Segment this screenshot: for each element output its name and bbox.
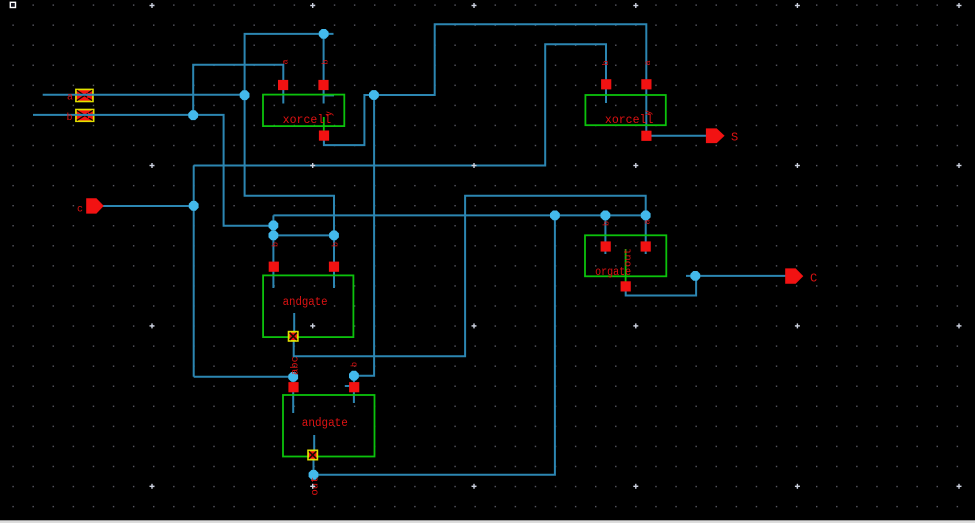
pin A0.a [269, 262, 279, 272]
pin X0.a [278, 80, 288, 90]
junction long net @ orgate pin a [641, 211, 651, 221]
wire net a drop to xorcell X0 pin b [323, 34, 325, 104]
junction net c @ pin c wire [189, 201, 199, 211]
svg-text:C: C [810, 272, 817, 286]
svg-text:a: a [643, 219, 653, 224]
wire andgate A0 output to orgate O0 pin a [294, 196, 646, 357]
junction above andgate A1 pin a [288, 372, 298, 382]
output pin S symbol [706, 128, 725, 143]
wire net c to andgate A1 pin a [194, 377, 294, 413]
svg-text:b: b [331, 242, 341, 247]
wire net b vertical through dots into andgate A0 pin a [272, 215, 274, 288]
junction net a @ wire a [240, 90, 250, 100]
pin O0.a [601, 241, 611, 251]
svg-text:b: b [601, 60, 611, 65]
junction net a top [319, 29, 329, 39]
junction net b @ wire b [188, 110, 198, 120]
svg-text:c: c [77, 205, 83, 216]
output marker andgate A0 [288, 331, 299, 342]
pin A0.b [329, 262, 339, 272]
wire xor output branch down to andgate A1 pin b [354, 95, 374, 403]
wire into pin C with left stub [686, 275, 786, 277]
green stub xorcell X0 output [323, 117, 325, 131]
major grid crosses [150, 5, 155, 6]
svg-text:andgate: andgate [302, 417, 348, 430]
svg-text:a: a [67, 93, 73, 104]
pin O0.b [641, 241, 651, 251]
wire long horizontal net to orgate [273, 214, 645, 216]
wire net c: input c stub [100, 205, 194, 207]
pin X0.y [319, 131, 329, 141]
pin X1.b [641, 79, 651, 89]
output pin C symbol [785, 268, 803, 283]
svg-text:b: b [67, 112, 73, 124]
svg-text:y: y [325, 111, 335, 117]
junction andgate A1 output [309, 470, 319, 480]
xorcell X1 body [585, 95, 665, 125]
bottom window edge strip [0, 520, 975, 523]
xorcell X0 body [263, 95, 344, 127]
svg-text:S: S [731, 131, 738, 145]
junction above andgate A1 pin b [349, 371, 359, 381]
wire net c to xorcell X1 pin a [194, 44, 606, 165]
svg-text:out: out [623, 248, 635, 267]
output marker andgate A1 [307, 450, 318, 461]
junction before pin C [690, 271, 700, 281]
origin marker top-left [10, 2, 15, 7]
wire net a: input a to junctions [43, 34, 334, 95]
input pin c symbol [86, 198, 104, 213]
wire xorcell X0 output to xorcell X1 pin b [324, 24, 646, 145]
svg-text:b: b [271, 242, 281, 247]
pin A1.b [349, 382, 359, 392]
orgate O0 body [585, 235, 666, 276]
junction above andgate A0 pin a upper [269, 221, 279, 231]
pin X0.b [318, 80, 328, 90]
pin X1.a [601, 79, 611, 89]
wire orgate O0 output to pin C [626, 276, 696, 296]
wire andgate A1 output down [313, 459, 315, 475]
pin A1.a [288, 382, 298, 392]
svg-text:y: y [644, 110, 654, 116]
wire stub inside andgate A0 above output [293, 313, 295, 332]
svg-text:b: b [602, 221, 612, 226]
junction above andgate A0 pin a lower [269, 231, 279, 241]
svg-text:a: a [643, 60, 653, 65]
wire drop to orgate O0 pin b [604, 215, 606, 254]
wire net b: input b horizontal and down [33, 115, 272, 226]
svg-text:b: b [350, 362, 360, 367]
wire net c vertical trunk [193, 166, 195, 377]
junction long net @ orgate pin b [601, 211, 611, 221]
wire cross link above andgate A0 [273, 234, 334, 236]
andgate A0 body [263, 275, 353, 337]
green stub orgate O0 output [625, 249, 627, 282]
junction xor output branch [369, 90, 379, 100]
wire stub inside andgate A1 above output [313, 435, 315, 450]
input pin symbol b [75, 109, 94, 122]
pin O0.out [621, 281, 631, 291]
svg-text:a: a [281, 59, 291, 64]
wire net a down-right to andgate A0 pin b [245, 95, 334, 288]
wire stub left of andgate A1 pin b [345, 385, 350, 387]
wire xorcell X1 output to pin S [651, 135, 707, 137]
input pin symbol a [75, 89, 94, 103]
svg-text:b: b [321, 59, 331, 64]
svg-text:andgate: andgate [283, 296, 328, 309]
pin X1.y [641, 131, 651, 141]
wire andgate A1 output right and up [314, 215, 555, 474]
wire net b up to xorcell X0 pin a [193, 65, 283, 115]
andgate A1 body [283, 395, 375, 457]
junction above andgate A0 pin b [329, 231, 339, 241]
svg-text:abc: abc [290, 356, 302, 375]
wire stub at xorcell X0 top edge [324, 94, 334, 96]
junction long net @ andgate A1 output [550, 211, 560, 221]
